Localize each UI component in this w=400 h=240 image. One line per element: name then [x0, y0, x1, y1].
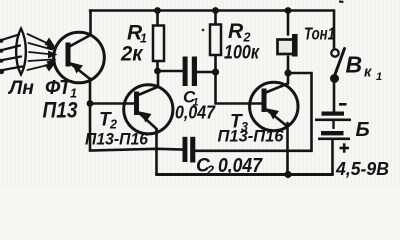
svg-text:1: 1 [376, 71, 382, 83]
svg-text:0,047: 0,047 [218, 154, 263, 177]
svg-text:4,5-9В: 4,5-9В [335, 158, 389, 179]
wire T2 base [90, 102, 135, 105]
wire C1 right [197, 71, 216, 74]
node junction dots on top rail [87, 7, 292, 178]
ray source blobs at left edge [0, 39, 4, 74]
node R1 / T2 collector / C1 [154, 68, 161, 75]
lens Лн [16, 29, 26, 75]
svg-text:П13-П16: П13-П16 [218, 127, 285, 146]
svg-text:П13: П13 [43, 98, 78, 123]
svg-text:к: к [364, 65, 372, 81]
node T3 emitter / bottom rail [284, 171, 291, 178]
battery minus sign [339, 103, 347, 106]
svg-text:Лн: Лн [7, 78, 35, 99]
wire T3 emitter down [286, 123, 289, 175]
wire T3 collector up [287, 73, 290, 84]
paper background [0, 0, 400, 189]
scan speck near top right [339, 0, 344, 3]
wire right rail down to switch [333, 11, 336, 49]
wire base net down to C2 left plate [90, 104, 183, 151]
wire R1 top [156, 11, 159, 26]
FT1 emitter arrowhead [72, 63, 84, 74]
transistor FT1 (phototransistor) [54, 32, 105, 83]
wire T2 emitter down [155, 130, 158, 175]
wire bottom rail [157, 173, 333, 176]
node R2 / C1 / T3 base [212, 68, 219, 75]
wire T3 base [216, 72, 264, 104]
node speaker/top [285, 7, 292, 14]
wire R2 bottom [214, 55, 217, 72]
node R1/top [154, 7, 161, 14]
battery plus sign [340, 143, 350, 152]
battery Б plates [315, 112, 351, 141]
wire battery bottom to rail [331, 140, 334, 175]
wire C1 left [158, 70, 184, 73]
svg-text:2к: 2к [120, 43, 144, 66]
svg-text:ФТ: ФТ [45, 77, 73, 99]
light rays left of lens [0, 35, 22, 71]
wire FT1 collector [89, 11, 92, 35]
svg-text:R: R [228, 20, 244, 43]
capacitor C2 plates [183, 137, 196, 163]
light rays converging to phototransistor [28, 34, 54, 70]
svg-text:100к: 100к [224, 43, 260, 64]
wire speaker bottom [287, 57, 290, 74]
node R2/top [212, 7, 219, 14]
svg-text:2: 2 [206, 164, 214, 178]
speaker Тон1 (earphone) [278, 40, 294, 55]
svg-text:Б: Б [356, 119, 370, 141]
wire top rail [90, 9, 334, 12]
svg-text:0,047: 0,047 [175, 103, 216, 123]
transistor T3 [250, 82, 298, 130]
transistor T2 [124, 85, 173, 134]
wire FT1 emitter down [89, 79, 92, 104]
wire T3 collector to C2 right plate [196, 73, 312, 151]
switch pivot dot [330, 74, 339, 83]
T2 emitter arrowhead [140, 112, 152, 123]
wire R2 top [214, 11, 217, 25]
svg-text:Тон1: Тон1 [304, 24, 335, 44]
resistor R1 [153, 26, 164, 62]
wire R1 bottom to T2 collector junction [156, 61, 159, 71]
capacitor C1 plates [183, 57, 197, 87]
wire battery top from switch [333, 82, 336, 112]
ray arrowheads [45, 38, 58, 72]
svg-text:П13-П16: П13-П16 [85, 130, 149, 149]
wire battery inter-cell stub [332, 121, 334, 128]
node FT1 emitter / T2 base [87, 100, 94, 107]
scan speck left of R2 [202, 29, 205, 32]
T3 emitter arrowhead [268, 109, 280, 120]
node speaker / T3 collector [284, 69, 291, 76]
switch Bk1 [331, 49, 338, 56]
svg-text:В: В [346, 52, 363, 78]
wire T2 collector [157, 71, 160, 87]
resistor R2 [210, 25, 221, 56]
wire speaker top [287, 11, 290, 35]
switch lever [335, 49, 345, 76]
